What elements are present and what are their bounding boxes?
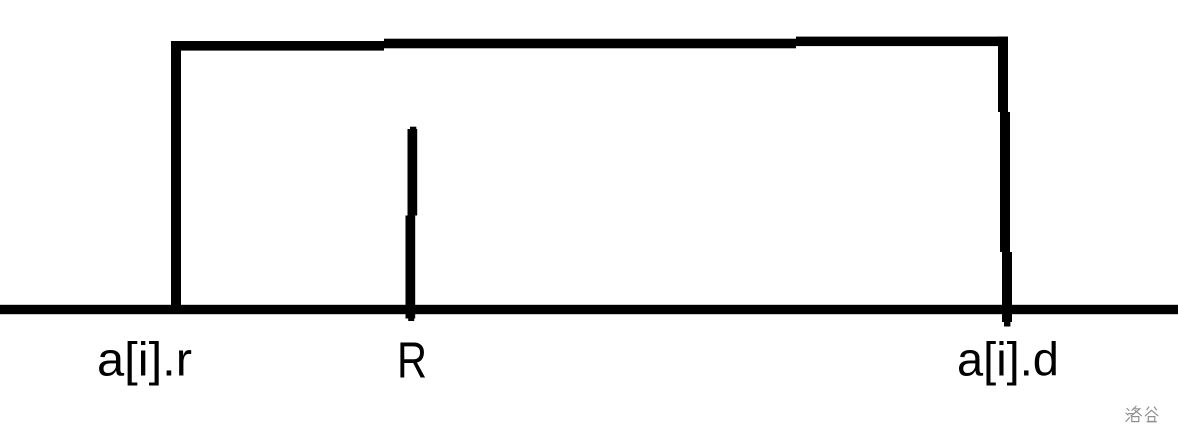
watermark 洛谷 xyxy=(1126,406,1158,422)
wire: top horizontal segment 3 xyxy=(796,37,1008,47)
谷 person xyxy=(1145,410,1151,416)
svg-text:a[i].d: a[i].d xyxy=(957,333,1059,386)
wire: top horizontal segment 2 xyxy=(384,39,796,49)
svg-text:R: R xyxy=(397,332,427,389)
number line (baseline) xyxy=(0,305,1178,314)
洛 mouth xyxy=(1132,417,1139,422)
洛 horizontal xyxy=(1129,413,1135,415)
wire: top horizontal segment 1 xyxy=(171,41,384,51)
svg-text:a[i].r: a[i].r xyxy=(97,333,192,386)
谷 top dots xyxy=(1147,407,1149,410)
洛 water radical dots xyxy=(1127,409,1129,411)
wire: middle vertical tick at R xyxy=(406,127,418,321)
谷 bottom feet xyxy=(1147,421,1157,423)
洛 right part 夂 xyxy=(1132,406,1136,410)
谷 mouth xyxy=(1148,417,1155,422)
wire: left vertical segment at a[i].r xyxy=(171,41,181,305)
wire: right vertical segment at a[i].d xyxy=(998,37,1012,327)
